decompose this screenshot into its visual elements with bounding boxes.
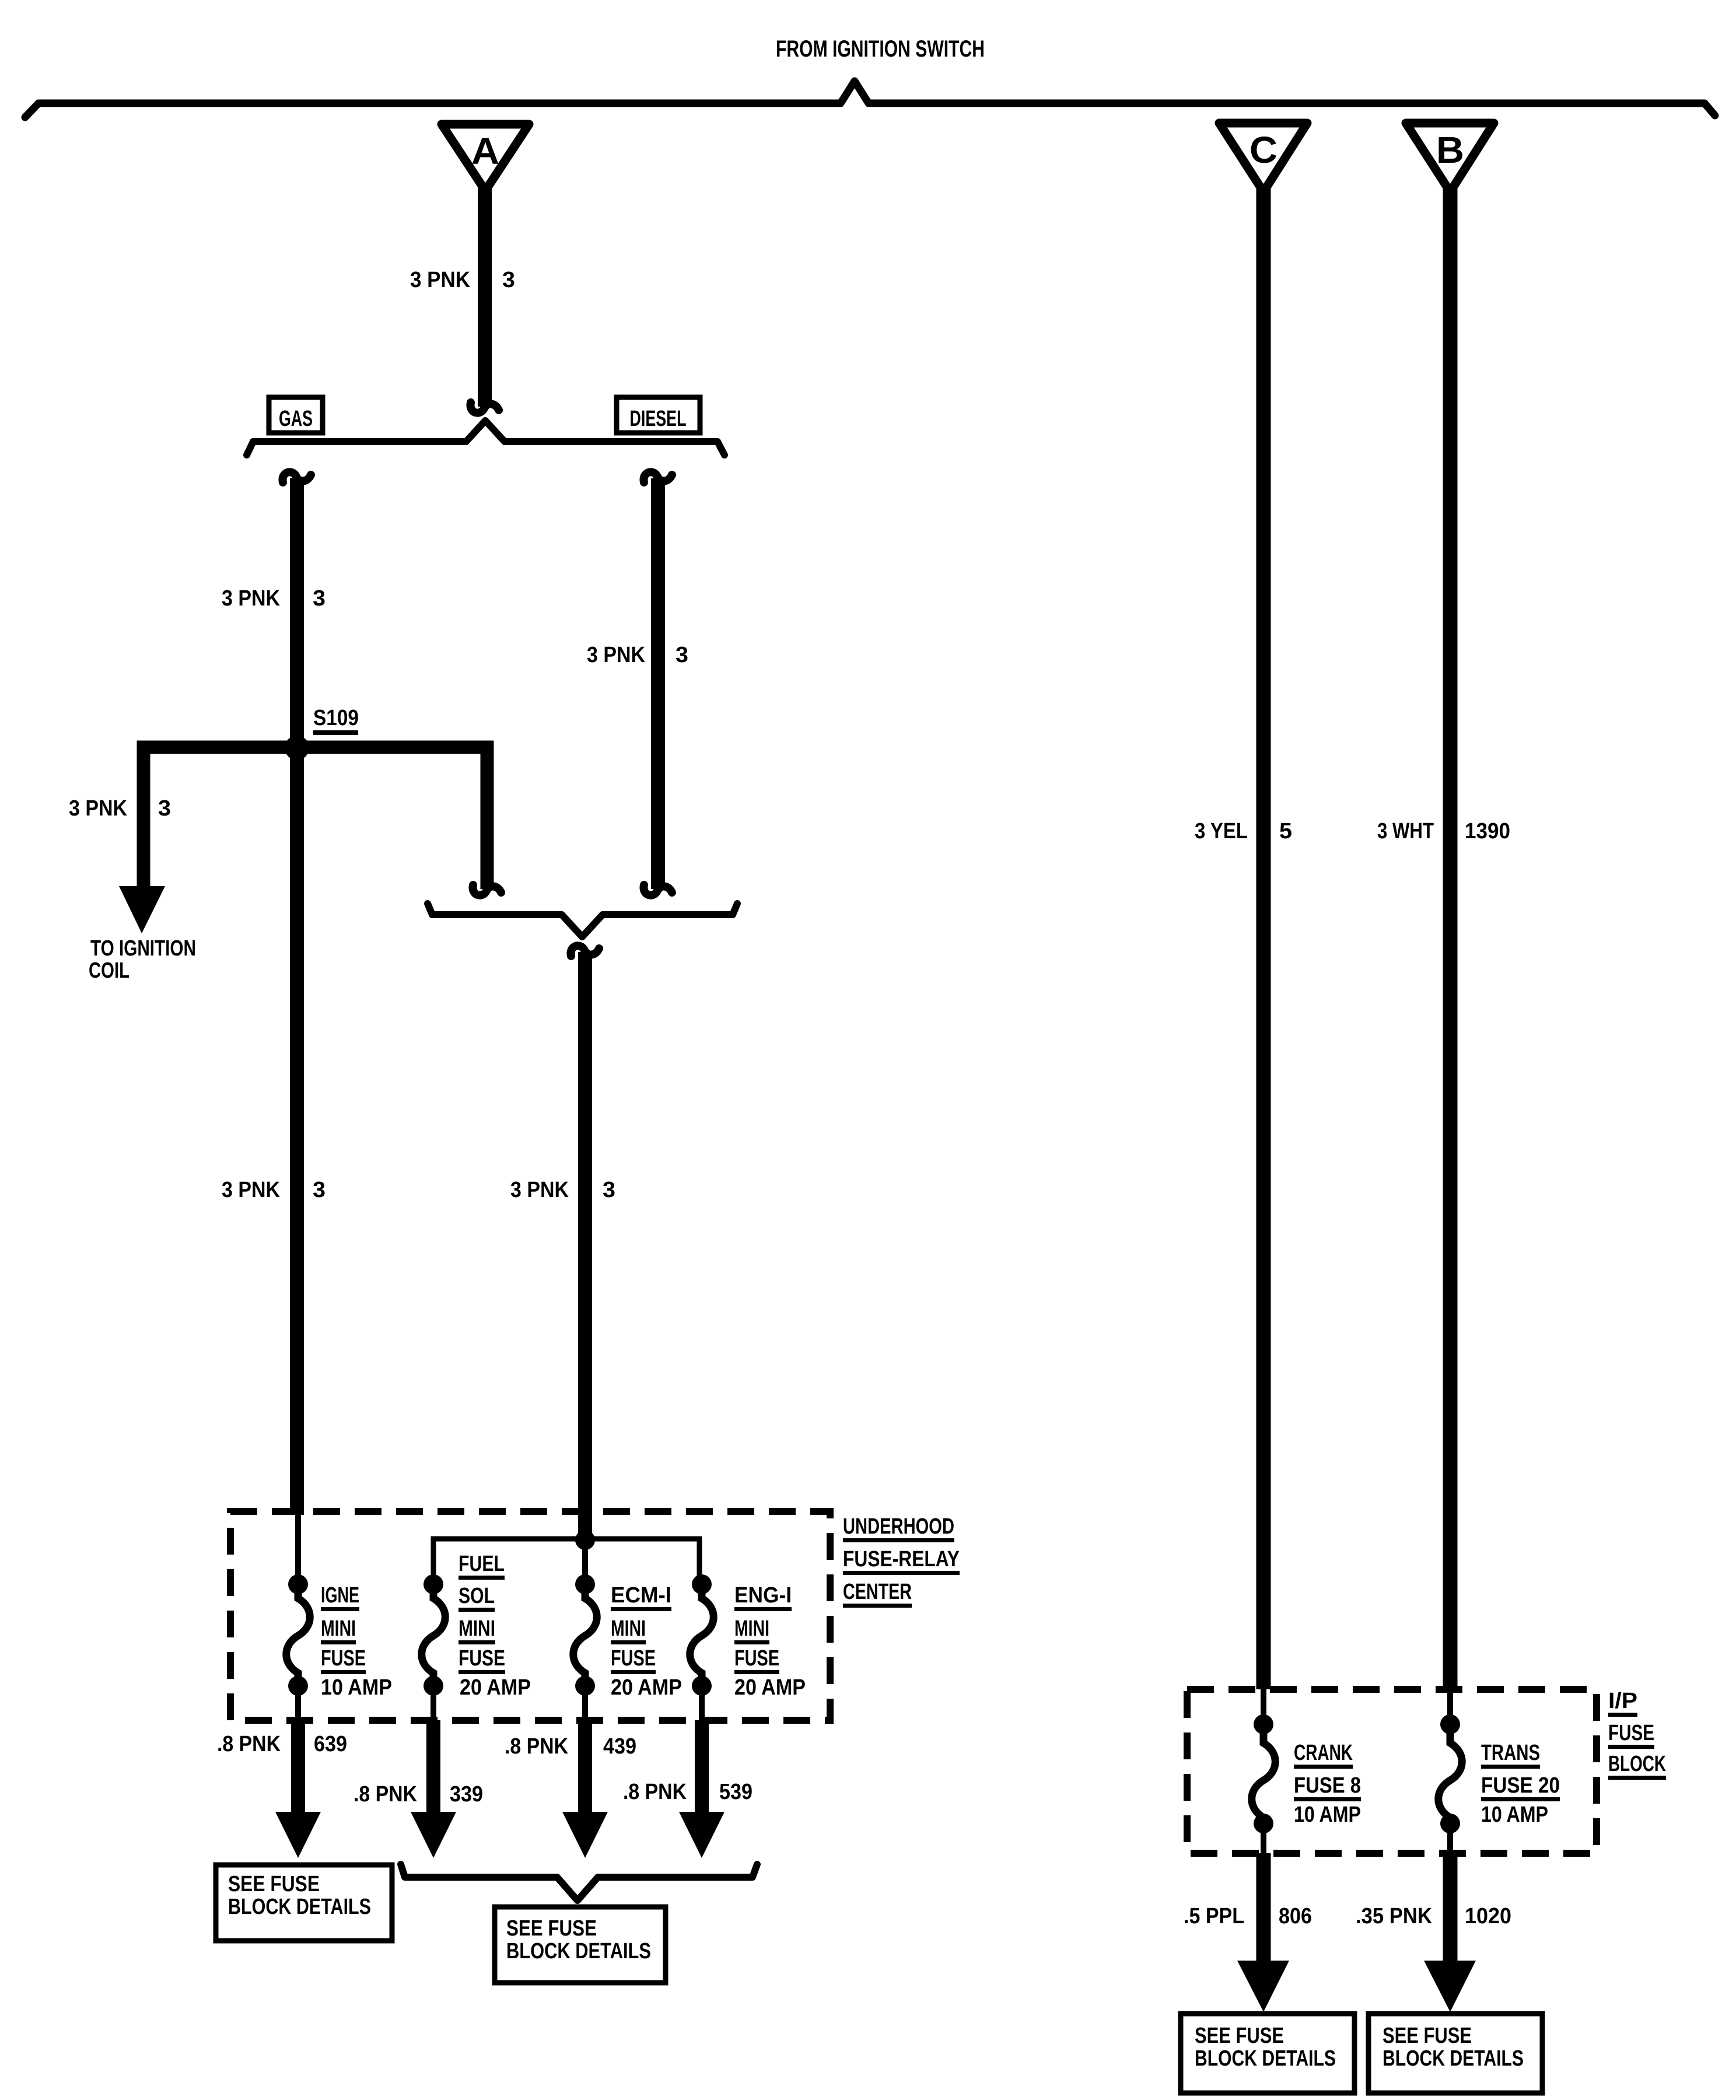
svg-text:3: 3 [502,268,515,292]
svg-text:SEE FUSE: SEE FUSE [1195,2024,1284,2048]
svg-text:ENG-I: ENG-I [734,1583,792,1608]
wire trans fuse output with arrow [1424,1853,1476,2012]
svg-text:BLOCK DETAILS: BLOCK DETAILS [506,1939,651,1964]
svg-text:1020: 1020 [1465,1904,1511,1929]
wire fuse 1 output with arrow [275,1720,321,1858]
wire from A down to split brace [470,188,499,413]
svg-text:FUSE: FUSE [459,1646,505,1671]
svg-text:TRANS: TRANS [1481,1741,1540,1765]
svg-text:A: A [471,130,499,172]
svg-text:3 PNK: 3 PNK [222,586,280,611]
I/P fuse block dashed box [1187,1689,1597,1853]
wire crank fuse output with arrow [1237,1853,1289,2012]
label I/P FUSE BLOCK [1608,1689,1666,1780]
label IGNE MINI FUSE 10 AMP [321,1583,392,1700]
label 3 PNK 3 (GAS wire) [222,586,325,611]
label .8 PNK 639 [217,1732,347,1756]
fuse FUEL SOL MINI FUSE 20 AMP [422,1574,446,1724]
svg-text:FUEL: FUEL [459,1552,505,1576]
svg-text:S109: S109 [313,706,359,730]
svg-text:3: 3 [675,643,688,667]
node DIESEL label box [617,397,700,433]
svg-text:10 AMP: 10 AMP [321,1675,392,1700]
node SEE FUSE BLOCK DETAILS box 2 [495,1907,666,1983]
connector triangle C [1219,123,1307,192]
svg-text:439: 439 [603,1734,636,1759]
svg-text:CENTER: CENTER [843,1580,912,1604]
svg-text:BLOCK DETAILS: BLOCK DETAILS [228,1895,371,1919]
wire merged (3 PNK) down to underhood center [570,946,599,1540]
wire fuse 4 output with arrow [679,1720,724,1858]
svg-text:FUSE: FUSE [321,1646,366,1671]
svg-text:BLOCK: BLOCK [1608,1752,1666,1776]
svg-text:539: 539 [719,1780,752,1804]
fuse CRANK FUSE 8 10 AMP [1252,1689,1276,1853]
svg-text:639: 639 [314,1732,347,1756]
wire B (3 WHT) vertical [1443,188,1458,1689]
wire right branch from S109 down to merge brace [473,741,501,895]
svg-text:IGNE: IGNE [321,1583,359,1608]
wire connector bar inside underhood box [433,1539,699,1584]
svg-text:B: B [1436,129,1464,171]
svg-text:FROM IGNITION SWITCH: FROM IGNITION SWITCH [776,36,985,62]
label 3 PNK 3 (wire A) [410,268,515,292]
svg-text:MINI: MINI [611,1616,646,1641]
label UNDERHOOD FUSE-RELAY CENTER [843,1514,960,1608]
svg-text:ECM-I: ECM-I [611,1583,671,1608]
svg-text:SEE FUSE: SEE FUSE [506,1916,597,1941]
label 3 PNK 3 (GAS wire lower) [222,1178,325,1202]
label 3 PNK 3 (merged wire) [510,1178,615,1202]
svg-text:3: 3 [158,796,171,821]
svg-text:SEE FUSE: SEE FUSE [228,1872,320,1896]
node GAS label box [269,397,323,433]
svg-text:3 WHT: 3 WHT [1377,819,1434,843]
svg-text:3 PNK: 3 PNK [410,268,471,292]
svg-text:DIESEL: DIESEL [630,407,687,431]
wire DIESEL branch (3 PNK) vertical [643,472,672,895]
label TRANS FUSE 20 10 AMP [1481,1741,1560,1827]
svg-text:3 PNK: 3 PNK [69,796,127,821]
svg-text:10 AMP: 10 AMP [1294,1803,1361,1827]
svg-text:FUSE 8: FUSE 8 [1294,1773,1361,1798]
svg-text:20 AMP: 20 AMP [460,1675,531,1700]
brace merging GAS branch and DIESEL into one [428,904,737,937]
wire to ignition coil branch [137,741,150,891]
label ENG-I MINI FUSE 20 AMP [734,1583,806,1700]
svg-text:COIL: COIL [89,958,129,983]
label FUEL SOL MINI FUSE 20 AMP [459,1552,531,1700]
label .5 PPL 806 [1184,1904,1312,1929]
svg-text:FUSE: FUSE [1608,1721,1654,1745]
svg-text:20 AMP: 20 AMP [611,1675,682,1700]
svg-text:3: 3 [603,1178,615,1202]
svg-text:.35 PNK: .35 PNK [1356,1904,1432,1929]
label .8 PNK 539 [623,1780,752,1804]
svg-text:1390: 1390 [1465,819,1510,843]
fuse IGNE MINI FUSE 10 AMP [286,1515,310,1724]
wire GAS branch (3 PNK) vertical [282,472,311,1515]
wire fuse 2 output with arrow [411,1720,456,1858]
svg-text:.8 PNK: .8 PNK [505,1734,568,1759]
label 3 PNK 3 (ignition coil branch) [69,796,171,821]
svg-text:.8 PNK: .8 PNK [217,1732,281,1756]
svg-text:FUSE 20: FUSE 20 [1481,1773,1560,1798]
svg-text:SEE FUSE: SEE FUSE [1382,2024,1472,2048]
node SEE FUSE BLOCK DETAILS box 1 [216,1865,392,1941]
svg-text:TO IGNITION: TO IGNITION [90,936,196,961]
svg-text:5: 5 [1279,819,1292,843]
fuse ENG-I MINI FUSE 20 AMP [690,1574,714,1724]
connector triangle B [1406,123,1494,192]
svg-text:FUSE: FUSE [734,1646,779,1671]
svg-text:FUSE: FUSE [611,1646,656,1671]
fuse TRANS FUSE 20 10 AMP [1438,1689,1462,1853]
brace gathering fuse outputs 2 3 4 [401,1864,757,1901]
connector triangle A [442,124,529,191]
svg-text:SOL: SOL [459,1584,495,1608]
node SEE FUSE BLOCK DETAILS box C [1181,2014,1354,2093]
svg-text:C: C [1249,129,1277,171]
label 3 WHT 1390 [1377,819,1510,843]
label CRANK FUSE 8 10 AMP [1294,1741,1361,1827]
svg-text:CRANK: CRANK [1294,1741,1353,1765]
junction dot merged wire on connector [575,1530,595,1550]
label ECM-I MINI FUSE 20 AMP [611,1583,682,1700]
wire splice horizontal at S109 [137,741,494,754]
svg-text:10 AMP: 10 AMP [1481,1803,1548,1827]
svg-text:BLOCK DETAILS: BLOCK DETAILS [1195,2046,1336,2071]
svg-text:3: 3 [313,1178,325,1202]
wire fuse 3 output with arrow [562,1720,608,1858]
svg-text:3 PNK: 3 PNK [222,1178,280,1202]
svg-text:.8 PNK: .8 PNK [353,1782,417,1807]
label .8 PNK 339 [353,1782,483,1807]
underhood fuse-relay center dashed box [230,1511,830,1720]
svg-text:MINI: MINI [734,1616,769,1641]
svg-text:GAS: GAS [279,407,313,431]
label TO IGNITION COIL [89,936,196,983]
svg-text:806: 806 [1279,1904,1312,1929]
label 3 YEL 5 [1195,819,1292,843]
label 3 PNK 3 (DIESEL wire) [587,643,688,667]
svg-text:BLOCK DETAILS: BLOCK DETAILS [1382,2046,1524,2071]
svg-text:UNDERHOOD: UNDERHOOD [843,1514,954,1539]
svg-text:MINI: MINI [321,1616,356,1641]
svg-text:3 YEL: 3 YEL [1195,819,1248,843]
svg-text:FUSE-RELAY: FUSE-RELAY [843,1547,960,1571]
fuse ECM-I MINI FUSE 20 AMP [573,1540,597,1724]
wire C (3 YEL) vertical [1256,188,1271,1689]
svg-text:.8 PNK: .8 PNK [623,1780,687,1804]
node SEE FUSE BLOCK DETAILS box B [1368,2014,1542,2093]
node S109 label [313,706,359,735]
label .35 PNK 1020 [1356,1904,1511,1929]
label .8 PNK 439 [505,1734,636,1759]
arrow to ignition coil [119,886,165,933]
svg-text:3 PNK: 3 PNK [587,643,645,667]
svg-text:I/P: I/P [1608,1689,1637,1713]
svg-text:.5 PPL: .5 PPL [1184,1904,1244,1929]
svg-text:MINI: MINI [459,1616,495,1641]
brace splitting A into GAS and DIESEL [247,421,724,455]
svg-text:20 AMP: 20 AMP [734,1675,806,1700]
junction S109 dot [285,736,309,760]
wire ignition feed bus [25,81,1715,117]
svg-text:3 PNK: 3 PNK [510,1178,569,1202]
svg-text:339: 339 [450,1782,483,1807]
svg-text:3: 3 [313,586,325,611]
